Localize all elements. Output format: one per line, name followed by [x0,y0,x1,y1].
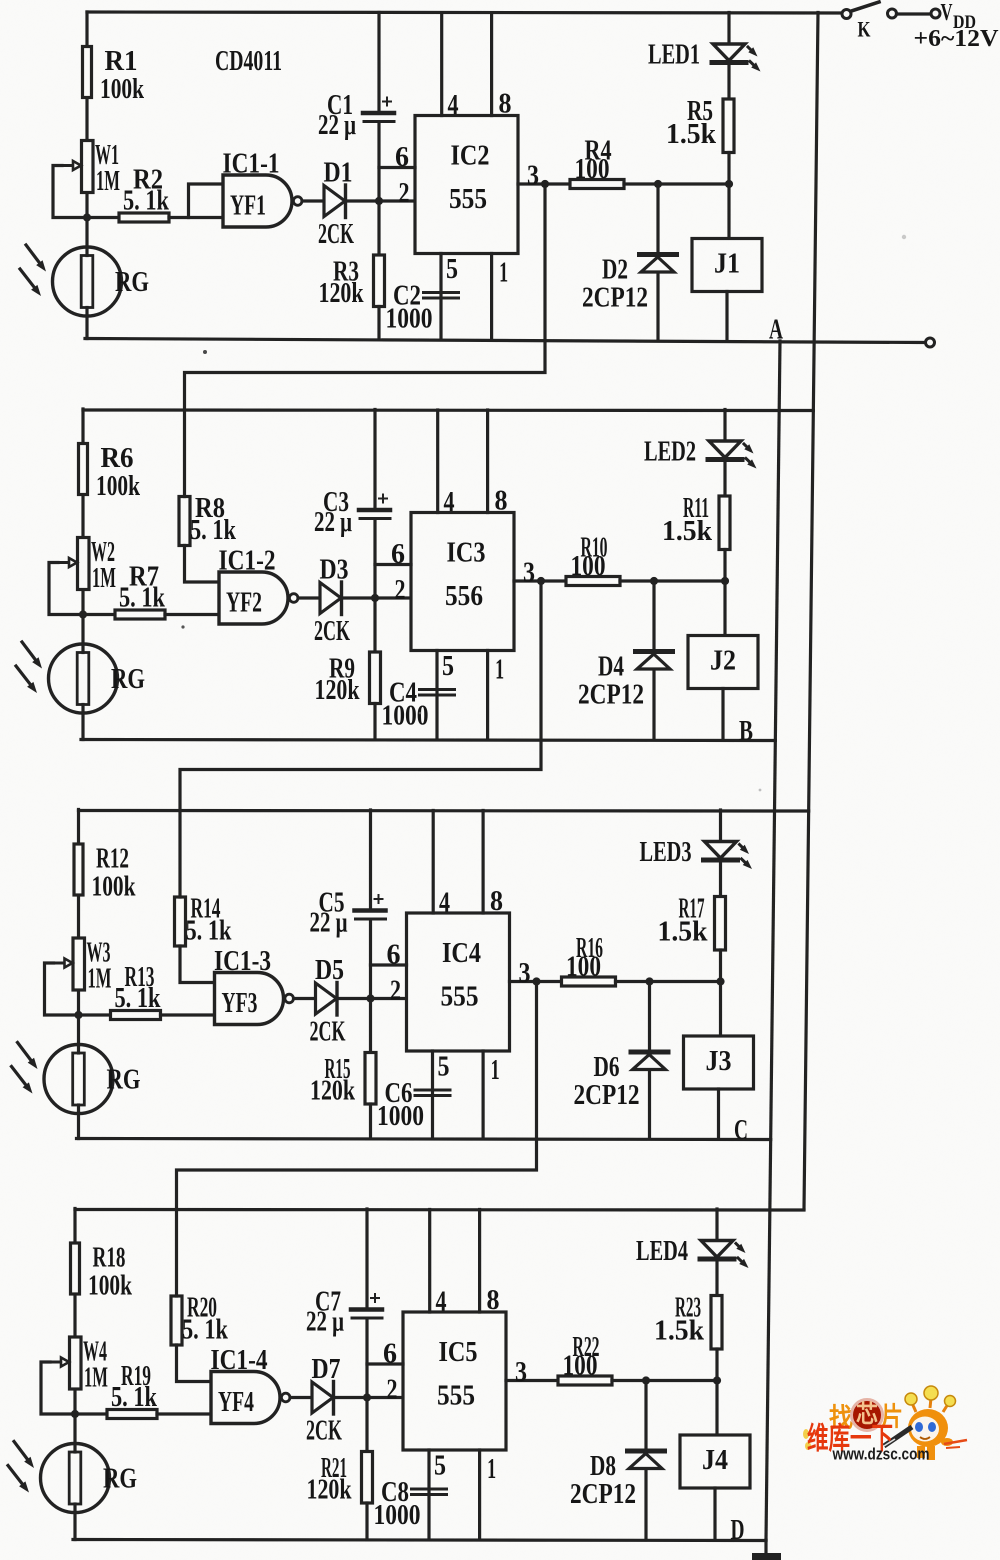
wire diode to pin2 [346,199,416,202]
LED LED1 [727,13,730,45]
diode D3 2CK [320,583,341,614]
node VDD terminal [931,9,940,18]
relay J4 [715,1381,718,1436]
resistor R14 5.1k [175,897,186,946]
relay J3 [719,982,722,1037]
node diode junction [642,1376,650,1384]
potentiometer W2 1M [78,538,90,590]
wire top rail stage 2 [83,408,813,412]
wire pin 4 [432,811,435,914]
wire cap to R timing [377,124,380,256]
resistor R10 100 [566,577,620,586]
wire relay to bottom rail [717,1089,720,1139]
wire wiper stub [41,1362,75,1414]
photoresistor RG stage 4 [41,1444,110,1513]
wire gate input tie hook [189,184,224,218]
watermark logo [803,1386,967,1464]
relay J1 [727,184,730,239]
capacitor C6 1000 [415,1089,450,1092]
node diode junction [645,977,653,985]
wire gate output [302,199,324,202]
resistor R23 1.5k [711,1296,722,1350]
node A output terminal [926,338,935,347]
resistor R6 100k [79,444,88,495]
wire relay to bottom rail [721,689,724,740]
op-amp NAND gate IC1-3 YF3 [215,973,284,1025]
node input junction [79,610,87,618]
op-amp timer IC2 555 [415,116,518,254]
resistor R18 100k [71,1243,80,1294]
wire to VDD terminal [897,12,932,15]
diode D4 2CP12 [652,581,655,740]
wire pin 1 [482,1051,485,1139]
wire pin 5 [435,651,438,740]
wire top rail stage 4 [75,1208,804,1212]
node relay junction [716,977,724,985]
node input junction [71,1410,79,1418]
wire pin 6 [367,1362,403,1365]
resistor R19 5.1k [75,1412,107,1415]
speck [203,350,207,354]
resistor R9 120k [370,652,381,704]
wire wiper stub [49,563,83,615]
capacitor C7 22u [365,1209,368,1307]
capacitor C4 1000 [420,688,455,691]
potentiometer W4 1M [70,1337,82,1389]
diode D7 2CK [312,1382,333,1413]
node relay junction [713,1376,721,1384]
wire diode to pin2 [337,997,407,1000]
wire VDD rail vertical [804,13,818,1210]
node feedback junction [537,577,545,585]
diode D5 2CK [316,983,337,1014]
wire pin 8 [478,1210,481,1313]
resistor R13 5.1k [79,1013,111,1016]
wire gate output [290,1396,312,1399]
wire feedback stage 3 pin3 to stage 4 [177,982,537,1297]
node diode junction [654,180,662,188]
wire pin 6 [375,563,411,566]
potentiometer W3 1M [73,938,85,990]
capacitor C3 22u [373,410,376,508]
wire pin 5 [427,1450,430,1540]
wire wiper stub [45,963,79,1015]
op-amp timer IC3 556 [411,513,514,651]
diode D1 2CK [324,186,345,217]
op-amp NAND gate IC1-4 YF4 [211,1372,280,1424]
op-amp NAND gate IC1-1 YF1 [223,175,292,227]
node pin2 junction [363,1393,371,1401]
node diode junction [650,577,658,585]
wire relay to bottom rail [725,292,728,339]
LED LED4 [715,1209,718,1241]
wire left vertical stage 1 [85,12,88,339]
wire left vertical stage 3 [77,810,80,1139]
wire bottom rail node A [85,339,926,343]
capacitor C2 1000 [424,291,459,294]
op-amp timer IC4 555 [407,913,510,1051]
wire pin 6 [379,166,415,169]
wire pin 6 [371,963,407,966]
potentiometer W1 1M [82,141,94,193]
wire pin 4 [436,410,439,513]
capacitor C1 22u [377,13,380,111]
wire gate output [294,997,316,1000]
wire pin 8 [482,811,485,914]
photoresistor RG stage 2 [49,644,118,713]
LED LED2 [723,410,726,442]
node pin2 junction [375,197,383,205]
wire pin 4 [428,1210,431,1313]
wire pin 3 output [518,182,570,185]
LED LED3 [719,810,722,842]
wire cap to R timing [365,1320,368,1452]
ground [764,1540,767,1554]
photoresistor RG stage 1 [53,247,122,316]
wire common node A rail vertical [766,341,780,1540]
diode D8 2CP12 [644,1381,647,1540]
wire pin 4 [440,13,443,116]
wire bottom rail node D [73,1540,766,1541]
wire bottom rail node B [81,740,775,741]
op-amp NAND gate IC1-2 YF2 [219,572,288,624]
wire pin 8 [490,13,493,116]
wire top rail stage 3 [79,809,809,813]
node pin2 junction [371,594,379,602]
wire pin 1 [478,1450,481,1540]
wire feedback stage 1 pin3 to stage 2 [185,184,546,497]
photoresistor RG stage 3 [44,1045,113,1114]
wire pin 1 [486,651,489,740]
resistor R16 100 [562,977,616,986]
diode D6 2CP12 [648,982,651,1139]
resistor R12 100k [74,844,83,895]
wire pin 1 [490,254,493,339]
wire diode to pin2 [334,1396,404,1399]
wire pin 8 [486,410,489,513]
node input junction [83,213,91,221]
node feedback junction [532,977,540,985]
wire pin 5 [431,1051,434,1139]
wire left vertical stage 4 [73,1209,76,1540]
wire feedback stage 2 pin3 to stage 3 [180,581,541,897]
resistor R3 120k [374,255,385,307]
op-amp timer IC5 555 [403,1312,506,1450]
resistor R7 5.1k [83,613,115,616]
resistor R2 5.1k [87,216,119,219]
wire pin 3 output [514,579,566,582]
wire wiper stub [53,166,87,218]
resistor R1 100k [83,47,92,98]
wire top VDD rail stage 1 [87,12,843,13]
resistor R5 1.5k [723,99,734,153]
capacitor C8 1000 [412,1488,447,1491]
resistor R17 1.5k [715,897,726,951]
light arrows [14,1442,27,1460]
node pin2 junction [366,994,374,1002]
resistor R11 1.5k [719,496,730,550]
resistor R8 5.1k [179,497,190,546]
wire cap to R timing [373,521,376,653]
wire gate output [298,596,320,599]
resistor R15 120k [365,1053,376,1105]
relay J2 [723,581,726,636]
node relay junction [721,577,729,585]
resistor R20 5.1k [171,1296,182,1345]
node input junction [74,1011,82,1019]
diode D2 2CP12 [656,184,659,339]
node relay junction [725,180,733,188]
resistor R22 100 [558,1376,612,1385]
wire left vertical stage 2 [81,409,84,740]
wire pin 3 output [506,1379,558,1382]
light arrows [18,1043,31,1061]
wire bottom rail node C [77,1139,771,1140]
wire pin 5 [439,254,442,339]
switch K [842,10,851,19]
node feedback junction [541,180,549,188]
wire cap to R timing [369,921,372,1053]
light arrows [26,245,39,263]
wire pin 3 output [510,980,562,983]
capacitor C5 22u [369,810,372,908]
resistor R21 120k [362,1452,373,1504]
light arrows [22,642,35,660]
wire relay to bottom rail [713,1488,716,1540]
wire diode to pin2 [342,596,412,599]
resistor R4 100 [570,180,624,189]
